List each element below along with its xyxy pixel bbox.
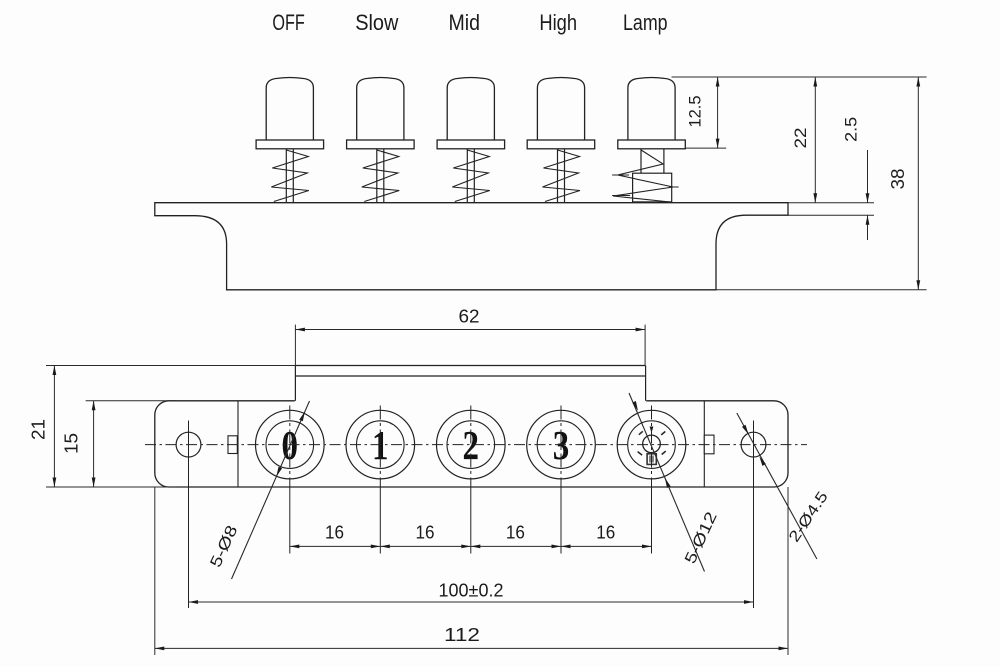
svg-text:16: 16 — [506, 523, 525, 543]
lamp ray SE — [662, 451, 666, 454]
lamp ray NW — [639, 431, 643, 434]
svg-text:OFF: OFF — [272, 10, 304, 35]
lamp switch stem — [640, 149, 642, 173]
vertical centerline button 4 — [651, 406, 653, 488]
spring OFF — [271, 150, 309, 202]
plunger stem OFF — [285, 149, 287, 203]
plunger stem Slow — [376, 149, 378, 203]
dimension 100±0.2 — [189, 601, 754, 603]
button hole inner 0 — [266, 421, 314, 469]
extension line plate-top level — [788, 202, 874, 204]
extension line 21-15 bottom — [46, 486, 175, 488]
lamp pointer arrow — [650, 427, 654, 434]
extension line 62 left — [294, 325, 296, 366]
button cap High — [537, 78, 584, 141]
spring Lamp — [613, 150, 673, 202]
button flange Lamp — [618, 140, 686, 149]
dimension 16 arrows segment 2 — [380, 545, 390, 549]
dimension 21 — [53, 366, 55, 488]
button hole outer 0 — [255, 410, 324, 479]
switch housing left edge — [294, 366, 296, 401]
button hole inner 3 — [537, 421, 585, 469]
spring Mid — [452, 150, 490, 202]
svg-text:100±0.2: 100±0.2 — [439, 580, 504, 601]
dimension 12.5 — [717, 77, 719, 148]
dimension 62 — [295, 329, 645, 331]
dimension 2.5 — [867, 150, 869, 203]
vertical centerline button 3 — [560, 406, 562, 488]
lamp ray SW — [638, 452, 643, 456]
button hole outer lamp — [617, 410, 686, 479]
lamp base hatch 1 — [649, 456, 651, 463]
spring coil tick right — [669, 186, 679, 188]
spring High — [543, 150, 581, 202]
leader 5-Ø8 — [232, 401, 310, 579]
mounting hole left — [176, 432, 201, 457]
button cap OFF — [266, 78, 313, 141]
svg-text:21: 21 — [29, 419, 49, 440]
button hole inner 1 — [357, 421, 405, 469]
vertical centerline button 1 — [379, 406, 381, 488]
svg-text:16: 16 — [416, 523, 435, 543]
extension line 15 top — [86, 400, 175, 402]
button hole outer 1 — [346, 410, 415, 479]
button flange Mid — [437, 140, 505, 149]
svg-text:15: 15 — [62, 433, 82, 454]
spring Slow — [362, 150, 400, 202]
vertical centerline button 0 — [289, 406, 291, 488]
lamp ray NE — [661, 432, 665, 435]
extension line 112 right — [787, 487, 789, 655]
lamp bulb circle — [643, 435, 661, 453]
svg-text:16: 16 — [325, 523, 344, 543]
switch housing top edge — [295, 366, 646, 402]
bracket side profile — [155, 203, 788, 290]
extension line lip-bottom level — [788, 214, 874, 216]
dimension 16 arrows segment 3 — [471, 545, 481, 549]
dimension 16 arrows segment 4 — [561, 545, 571, 549]
dimension 16 arrows segment 1 — [290, 545, 300, 549]
svg-text:62: 62 — [459, 307, 480, 327]
leader 2-Ø4.5 — [737, 413, 817, 559]
mounting hole right — [741, 432, 766, 457]
bend line left — [237, 401, 239, 487]
svg-text:2.5: 2.5 — [841, 117, 860, 142]
svg-text:22: 22 — [791, 128, 810, 149]
vertical centerline left hole — [188, 421, 190, 609]
svg-text:112: 112 — [444, 624, 480, 645]
button flange OFF — [256, 140, 324, 149]
button hole outer 2 — [437, 410, 506, 479]
dimension 16 chain line — [290, 545, 652, 547]
leader 5-Ø12 — [629, 393, 705, 572]
bracket plan outline — [155, 401, 788, 487]
extension line 21 top — [46, 365, 295, 367]
button hole inner lamp — [628, 421, 676, 469]
extension line flange-bottom level — [686, 147, 727, 149]
dimension 15 — [93, 401, 95, 487]
button hole inner 2 — [447, 421, 495, 469]
lamp switch body — [633, 173, 672, 202]
switch housing step edge — [295, 375, 645, 377]
button cap Slow — [357, 78, 404, 141]
plunger stem Mid — [466, 149, 468, 203]
button cap Mid — [447, 78, 494, 141]
dimension 112 — [155, 647, 788, 649]
extension line 62 right — [644, 325, 646, 366]
svg-text:High: High — [539, 10, 577, 35]
svg-text:Mid: Mid — [448, 10, 480, 35]
plunger stem High — [557, 149, 559, 203]
svg-text:38: 38 — [888, 169, 908, 190]
vertical centerline right hole — [753, 421, 755, 609]
notch left — [228, 436, 237, 454]
button cap Lamp — [628, 78, 675, 141]
extension line body-bottom level — [716, 289, 927, 291]
dimension 38 — [917, 77, 919, 290]
bend line right — [703, 401, 705, 487]
svg-text:16: 16 — [596, 523, 615, 543]
lamp base hatch 2 — [652, 456, 654, 463]
button hole outer 3 — [527, 410, 596, 479]
horizontal centerline — [145, 444, 807, 446]
extension line cap-top level — [672, 76, 927, 78]
button flange High — [527, 140, 595, 149]
spring coil tick left lower — [612, 195, 630, 197]
switch housing right edge — [645, 366, 647, 401]
dimension 22 — [814, 77, 816, 203]
extension line 112 left — [154, 487, 156, 655]
svg-text:12.5: 12.5 — [686, 96, 705, 128]
button flange Slow — [347, 140, 415, 149]
notch right — [704, 435, 714, 454]
svg-text:Slow: Slow — [355, 10, 398, 35]
lamp base — [647, 454, 656, 465]
svg-text:Lamp: Lamp — [623, 10, 668, 35]
vertical centerline button 2 — [470, 406, 472, 488]
spring coil tick left upper — [612, 174, 629, 176]
